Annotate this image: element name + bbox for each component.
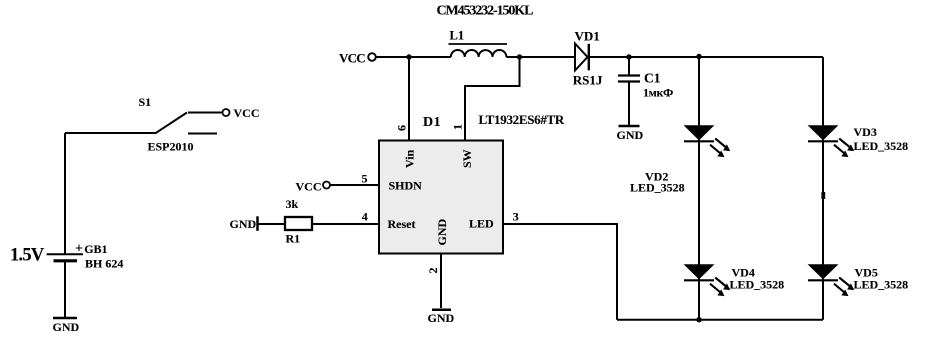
svg-text:3k: 3k	[286, 197, 299, 211]
svg-text:GND: GND	[230, 217, 257, 231]
svg-text:LT1932ES6#TR: LT1932ES6#TR	[479, 112, 565, 127]
svg-text:ESP2010: ESP2010	[148, 140, 194, 154]
svg-text:D1: D1	[423, 115, 441, 130]
svg-text:+: +	[75, 241, 83, 256]
svg-text:CM453232-150KL: CM453232-150KL	[437, 4, 534, 19]
svg-text:LED_3528: LED_3528	[854, 278, 909, 292]
svg-text:4: 4	[362, 210, 368, 224]
svg-text:RS1J: RS1J	[573, 73, 603, 88]
svg-text:VCC: VCC	[234, 106, 260, 120]
svg-text:VD3: VD3	[854, 125, 877, 139]
svg-text:LED_3528: LED_3528	[730, 278, 785, 292]
svg-text:1.5V: 1.5V	[10, 246, 45, 266]
svg-text:Vin: Vin	[403, 149, 417, 168]
svg-text:Reset: Reset	[388, 217, 416, 231]
svg-text:GND: GND	[617, 128, 644, 142]
svg-text:VCC: VCC	[296, 180, 322, 194]
svg-text:LED_3528: LED_3528	[630, 181, 685, 195]
svg-text:GND: GND	[435, 219, 449, 246]
svg-text:VCC: VCC	[339, 51, 365, 66]
svg-text:L1: L1	[450, 29, 465, 43]
svg-text:1: 1	[451, 124, 465, 130]
svg-text:GND: GND	[53, 320, 80, 334]
svg-text:S1: S1	[139, 95, 152, 109]
svg-text:GB1: GB1	[84, 242, 107, 256]
svg-text:5: 5	[362, 172, 368, 186]
svg-text:R1: R1	[286, 232, 301, 246]
svg-text:LED: LED	[469, 217, 494, 231]
svg-text:VD1: VD1	[575, 29, 600, 44]
svg-text:LED_3528: LED_3528	[854, 139, 909, 153]
svg-text:SW: SW	[460, 149, 474, 168]
svg-text:6: 6	[395, 125, 409, 131]
svg-text:C1: C1	[644, 71, 661, 86]
svg-text:2: 2	[426, 268, 440, 274]
svg-text:SHDN: SHDN	[389, 179, 423, 193]
svg-text:GND: GND	[428, 311, 455, 325]
svg-text:BH 624: BH 624	[85, 257, 123, 271]
svg-text:3: 3	[513, 210, 519, 224]
svg-text:1мкФ: 1мкФ	[643, 86, 673, 100]
